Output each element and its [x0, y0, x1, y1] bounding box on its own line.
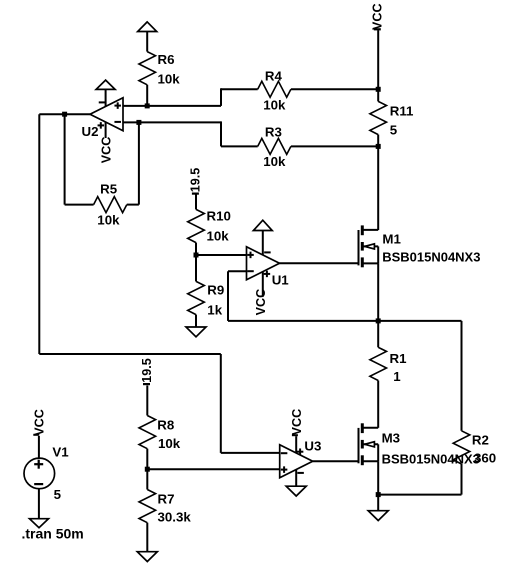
net label VCC (U3) — [290, 409, 304, 436]
node junction R4/R11/VCC — [376, 87, 381, 92]
nmos transistor M3 — [359, 423, 379, 465]
svg-text:R2: R2 — [472, 433, 489, 448]
wire U1 feedback vertical — [227, 271, 229, 321]
resistor R8 — [139, 416, 156, 470]
U1 input - marker — [247, 270, 254, 272]
svg-text:360: 360 — [474, 451, 496, 466]
svg-text:R4: R4 — [265, 69, 283, 84]
wire V1 bottom — [38, 489, 40, 519]
node junction M3-source/R2/ground — [376, 492, 381, 497]
value 10k (R6) — [158, 72, 181, 87]
voltage source V1 — [24, 458, 55, 489]
svg-text:VCC: VCC — [99, 137, 113, 164]
net label 19.5 (R8) tick — [143, 383, 150, 385]
resistor R1 — [370, 321, 387, 428]
U2 input - marker — [114, 121, 121, 123]
wire U2 noninverting input line — [123, 105, 221, 107]
net label VCC (top) — [371, 3, 385, 30]
resistor R10 — [188, 209, 205, 242]
label R4 — [265, 69, 283, 84]
label R10 — [207, 209, 231, 224]
svg-text:R8: R8 — [157, 418, 174, 433]
svg-text:19.5: 19.5 — [140, 358, 154, 383]
svg-text:.tran 50m: .tran 50m — [22, 526, 84, 542]
label U1 — [272, 273, 290, 288]
label R8 — [157, 418, 174, 433]
value BSB015N04NX3 (M1) — [382, 250, 480, 265]
svg-text:R6: R6 — [158, 52, 175, 67]
svg-text:M1: M1 — [382, 232, 401, 247]
node junction R3/R11/M1-drain — [376, 144, 381, 149]
resistor R4 — [258, 81, 291, 97]
svg-text:R11: R11 — [390, 104, 414, 119]
node junction R10/R9/U1 — [194, 253, 199, 258]
svg-text:5: 5 — [390, 123, 398, 138]
wire U3 top power stem — [295, 436, 297, 453]
net label VCC (top) anchor tick — [374, 28, 381, 30]
svg-text:5: 5 — [54, 487, 62, 502]
svg-text:R1: R1 — [390, 351, 408, 366]
wire R5 right — [127, 122, 139, 204]
label M1 — [382, 232, 401, 247]
label R5 — [100, 182, 118, 197]
ground below R9 — [186, 327, 206, 337]
wire rail U2-output to U3 input — [39, 114, 279, 453]
svg-text:10k: 10k — [158, 72, 181, 87]
wire U2 output — [39, 113, 90, 115]
svg-text:R9: R9 — [207, 283, 224, 298]
U3 input - marker — [281, 452, 288, 454]
resistor R2 — [453, 321, 470, 495]
svg-text:R7: R7 — [158, 492, 175, 507]
svg-text:10k: 10k — [263, 154, 286, 169]
label R7 — [158, 492, 175, 507]
node junction M1-source/R1/feedback — [376, 318, 381, 323]
wire V1 top — [38, 436, 40, 458]
wire M3 ground stem — [377, 495, 379, 511]
svg-text:R10: R10 — [207, 209, 231, 224]
svg-text:1: 1 — [393, 369, 401, 384]
value 10k (R3) — [263, 154, 286, 169]
wire R10 to node — [195, 243, 197, 255]
node junction R5/U2 input — [136, 120, 141, 125]
resistor R6 — [139, 32, 156, 106]
wire R4 right to node — [291, 88, 378, 90]
svg-text:M3: M3 — [382, 431, 400, 446]
wire U2 top power stem — [105, 89, 107, 106]
node junction U2 output / R5 — [62, 112, 67, 117]
net label VCC (V1) — [33, 409, 47, 436]
net label VCC (U3) tick — [292, 434, 298, 436]
label R3 — [265, 125, 282, 140]
U3 power - marker — [297, 472, 304, 474]
ground below M3 — [368, 511, 388, 521]
label R1 — [390, 351, 408, 366]
label R11 — [390, 104, 414, 119]
U1 input + marker — [247, 252, 254, 259]
wire feedback rail — [228, 320, 462, 322]
wire U1 bottom power stem — [262, 271, 264, 296]
ground below R7 — [137, 552, 157, 562]
wire M1 source — [377, 263, 379, 321]
label U2 — [82, 124, 99, 139]
U3 input + marker — [281, 466, 288, 473]
wire 19.5 to R8 — [146, 386, 148, 416]
net label 19.5 (R8) — [140, 358, 154, 383]
U2 input + marker — [114, 102, 121, 109]
wire U3 bottom power stem — [295, 470, 297, 487]
wire R3 left jog — [221, 121, 258, 146]
svg-text:10k: 10k — [97, 213, 120, 228]
resistor R7 — [139, 469, 156, 552]
resistor R11 — [370, 89, 387, 146]
net label VCC (V1) tick — [33, 434, 39, 436]
wire U3 output to M3 gate — [313, 460, 359, 462]
wire U1 top power stem — [262, 231, 264, 255]
wire U1 noninverting input — [196, 254, 247, 256]
wire M3 source — [377, 461, 379, 494]
op-amp U1 — [247, 247, 280, 280]
net label 19.5 (R10) — [189, 168, 203, 193]
value 30.3k (R7) — [158, 510, 192, 525]
power flag above U1 — [253, 220, 272, 230]
net label 19.5 (R10) tick — [192, 193, 199, 195]
spice directive .tran 50m — [22, 526, 84, 542]
ground below V1 — [30, 519, 49, 528]
value BSB015N04NX3 (M3) — [382, 452, 480, 467]
label R2 — [472, 433, 489, 448]
op-amp U3 — [280, 445, 313, 478]
ground below U3 — [286, 486, 306, 496]
value 10k (R8) — [158, 436, 181, 451]
label M3 — [382, 431, 400, 446]
resistor R5 — [94, 197, 127, 213]
svg-text:U3: U3 — [304, 439, 321, 454]
node junction R6/U2 input — [145, 103, 150, 108]
value 10k (R10) — [207, 229, 230, 244]
U2 power - marker — [99, 101, 106, 103]
value 1k (R9) — [207, 303, 222, 318]
U1 power - marker — [264, 251, 271, 253]
op-amp U2 — [90, 98, 123, 131]
resistor R3 — [258, 138, 291, 154]
label R6 — [158, 52, 175, 67]
value 5 (V1) — [54, 487, 62, 502]
value 1 (R1) — [393, 369, 401, 384]
net label VCC (U1) — [254, 289, 268, 316]
power flag above R6 — [138, 22, 157, 32]
svg-text:U2: U2 — [82, 124, 99, 139]
power flag above U2 — [96, 80, 115, 89]
wire R5 left — [65, 114, 94, 204]
label R9 — [207, 283, 224, 298]
svg-text:U1: U1 — [272, 273, 290, 288]
resistor R9 — [188, 255, 205, 327]
wire U2 bottom power stem — [105, 122, 107, 138]
svg-text:VCC: VCC — [254, 289, 268, 316]
U3 power + marker — [297, 448, 304, 455]
svg-text:R3: R3 — [265, 125, 282, 140]
wire U1 output to M1 gate — [280, 262, 359, 264]
svg-text:VCC: VCC — [371, 3, 385, 30]
svg-text:19.5: 19.5 — [189, 168, 203, 193]
wire M1 drain from R3 node — [377, 146, 379, 230]
node junction R8/R7/U3 — [145, 467, 150, 472]
U2 power + marker — [98, 122, 105, 128]
svg-text:VCC: VCC — [290, 409, 304, 436]
wire bottom rail to R2 — [378, 494, 461, 496]
svg-text:BSB015N04NX3: BSB015N04NX3 — [382, 250, 480, 265]
wire U3 inverting input line — [147, 468, 279, 470]
wire U2 inverting input line — [123, 121, 221, 123]
svg-text:10k: 10k — [158, 436, 181, 451]
svg-text:10k: 10k — [207, 229, 230, 244]
svg-text:1k: 1k — [207, 303, 222, 318]
label V1 — [52, 445, 69, 460]
wire VCC top to R11/R4 node — [377, 30, 379, 89]
svg-text:10k: 10k — [263, 98, 286, 113]
nmos transistor M1 — [359, 225, 379, 267]
svg-text:R5: R5 — [100, 182, 118, 197]
value 5 (R11) — [390, 123, 398, 138]
svg-text:30.3k: 30.3k — [158, 510, 192, 525]
net label VCC (U2) — [99, 137, 113, 164]
svg-text:V1: V1 — [52, 445, 69, 460]
wire U1 inverting input — [228, 270, 247, 272]
svg-text:VCC: VCC — [33, 409, 47, 436]
value 10k (R5) — [97, 213, 120, 228]
wire 19.5 to R10 — [195, 195, 197, 210]
U1 power + marker — [264, 271, 271, 278]
wire R3 right to node — [291, 145, 378, 147]
value 10k (R4) — [263, 98, 286, 113]
label U3 — [304, 439, 321, 454]
wire R4 left jog — [221, 88, 258, 106]
value 360 (R2) — [474, 451, 496, 466]
